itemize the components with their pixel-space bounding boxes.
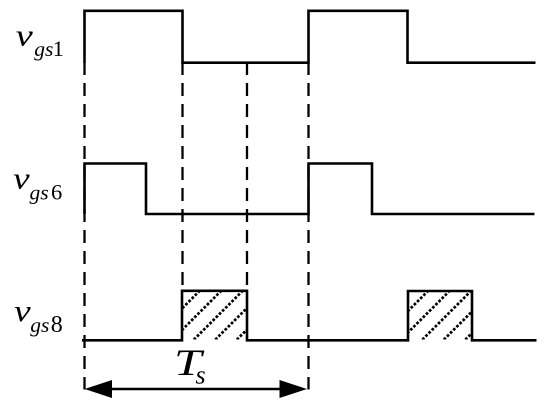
waveform vgs1 — [85, 11, 536, 63]
hatch fill pulse 2 — [329, 200, 550, 390]
svg-text:8: 8 — [51, 312, 63, 338]
dashed line t1 — [181, 62, 183, 290]
svg-text:s: s — [196, 361, 206, 390]
svg-text:v: v — [16, 17, 33, 52]
label vgs8 — [14, 293, 63, 338]
waveform vgs8 — [82, 291, 537, 341]
dashed line t2 — [246, 62, 248, 290]
label vgs6 — [13, 160, 62, 204]
svg-text:gs: gs — [30, 313, 49, 337]
waveform vgs6 — [85, 164, 535, 215]
dashed line t0 — [83, 62, 85, 390]
svg-text:gs: gs — [30, 181, 49, 205]
svg-text:gs: gs — [34, 37, 53, 61]
svg-text:6: 6 — [51, 180, 62, 205]
period arrow shaft — [105, 388, 287, 391]
hatch fill pulse 1 — [101, 200, 377, 390]
svg-text:v: v — [14, 293, 31, 328]
dashed line t3 — [307, 62, 309, 390]
svg-text:1: 1 — [53, 36, 64, 61]
period arrow left head — [85, 380, 112, 398]
period arrow right head — [280, 380, 308, 398]
label vgs1 — [16, 17, 64, 61]
svg-text:v: v — [13, 160, 30, 195]
